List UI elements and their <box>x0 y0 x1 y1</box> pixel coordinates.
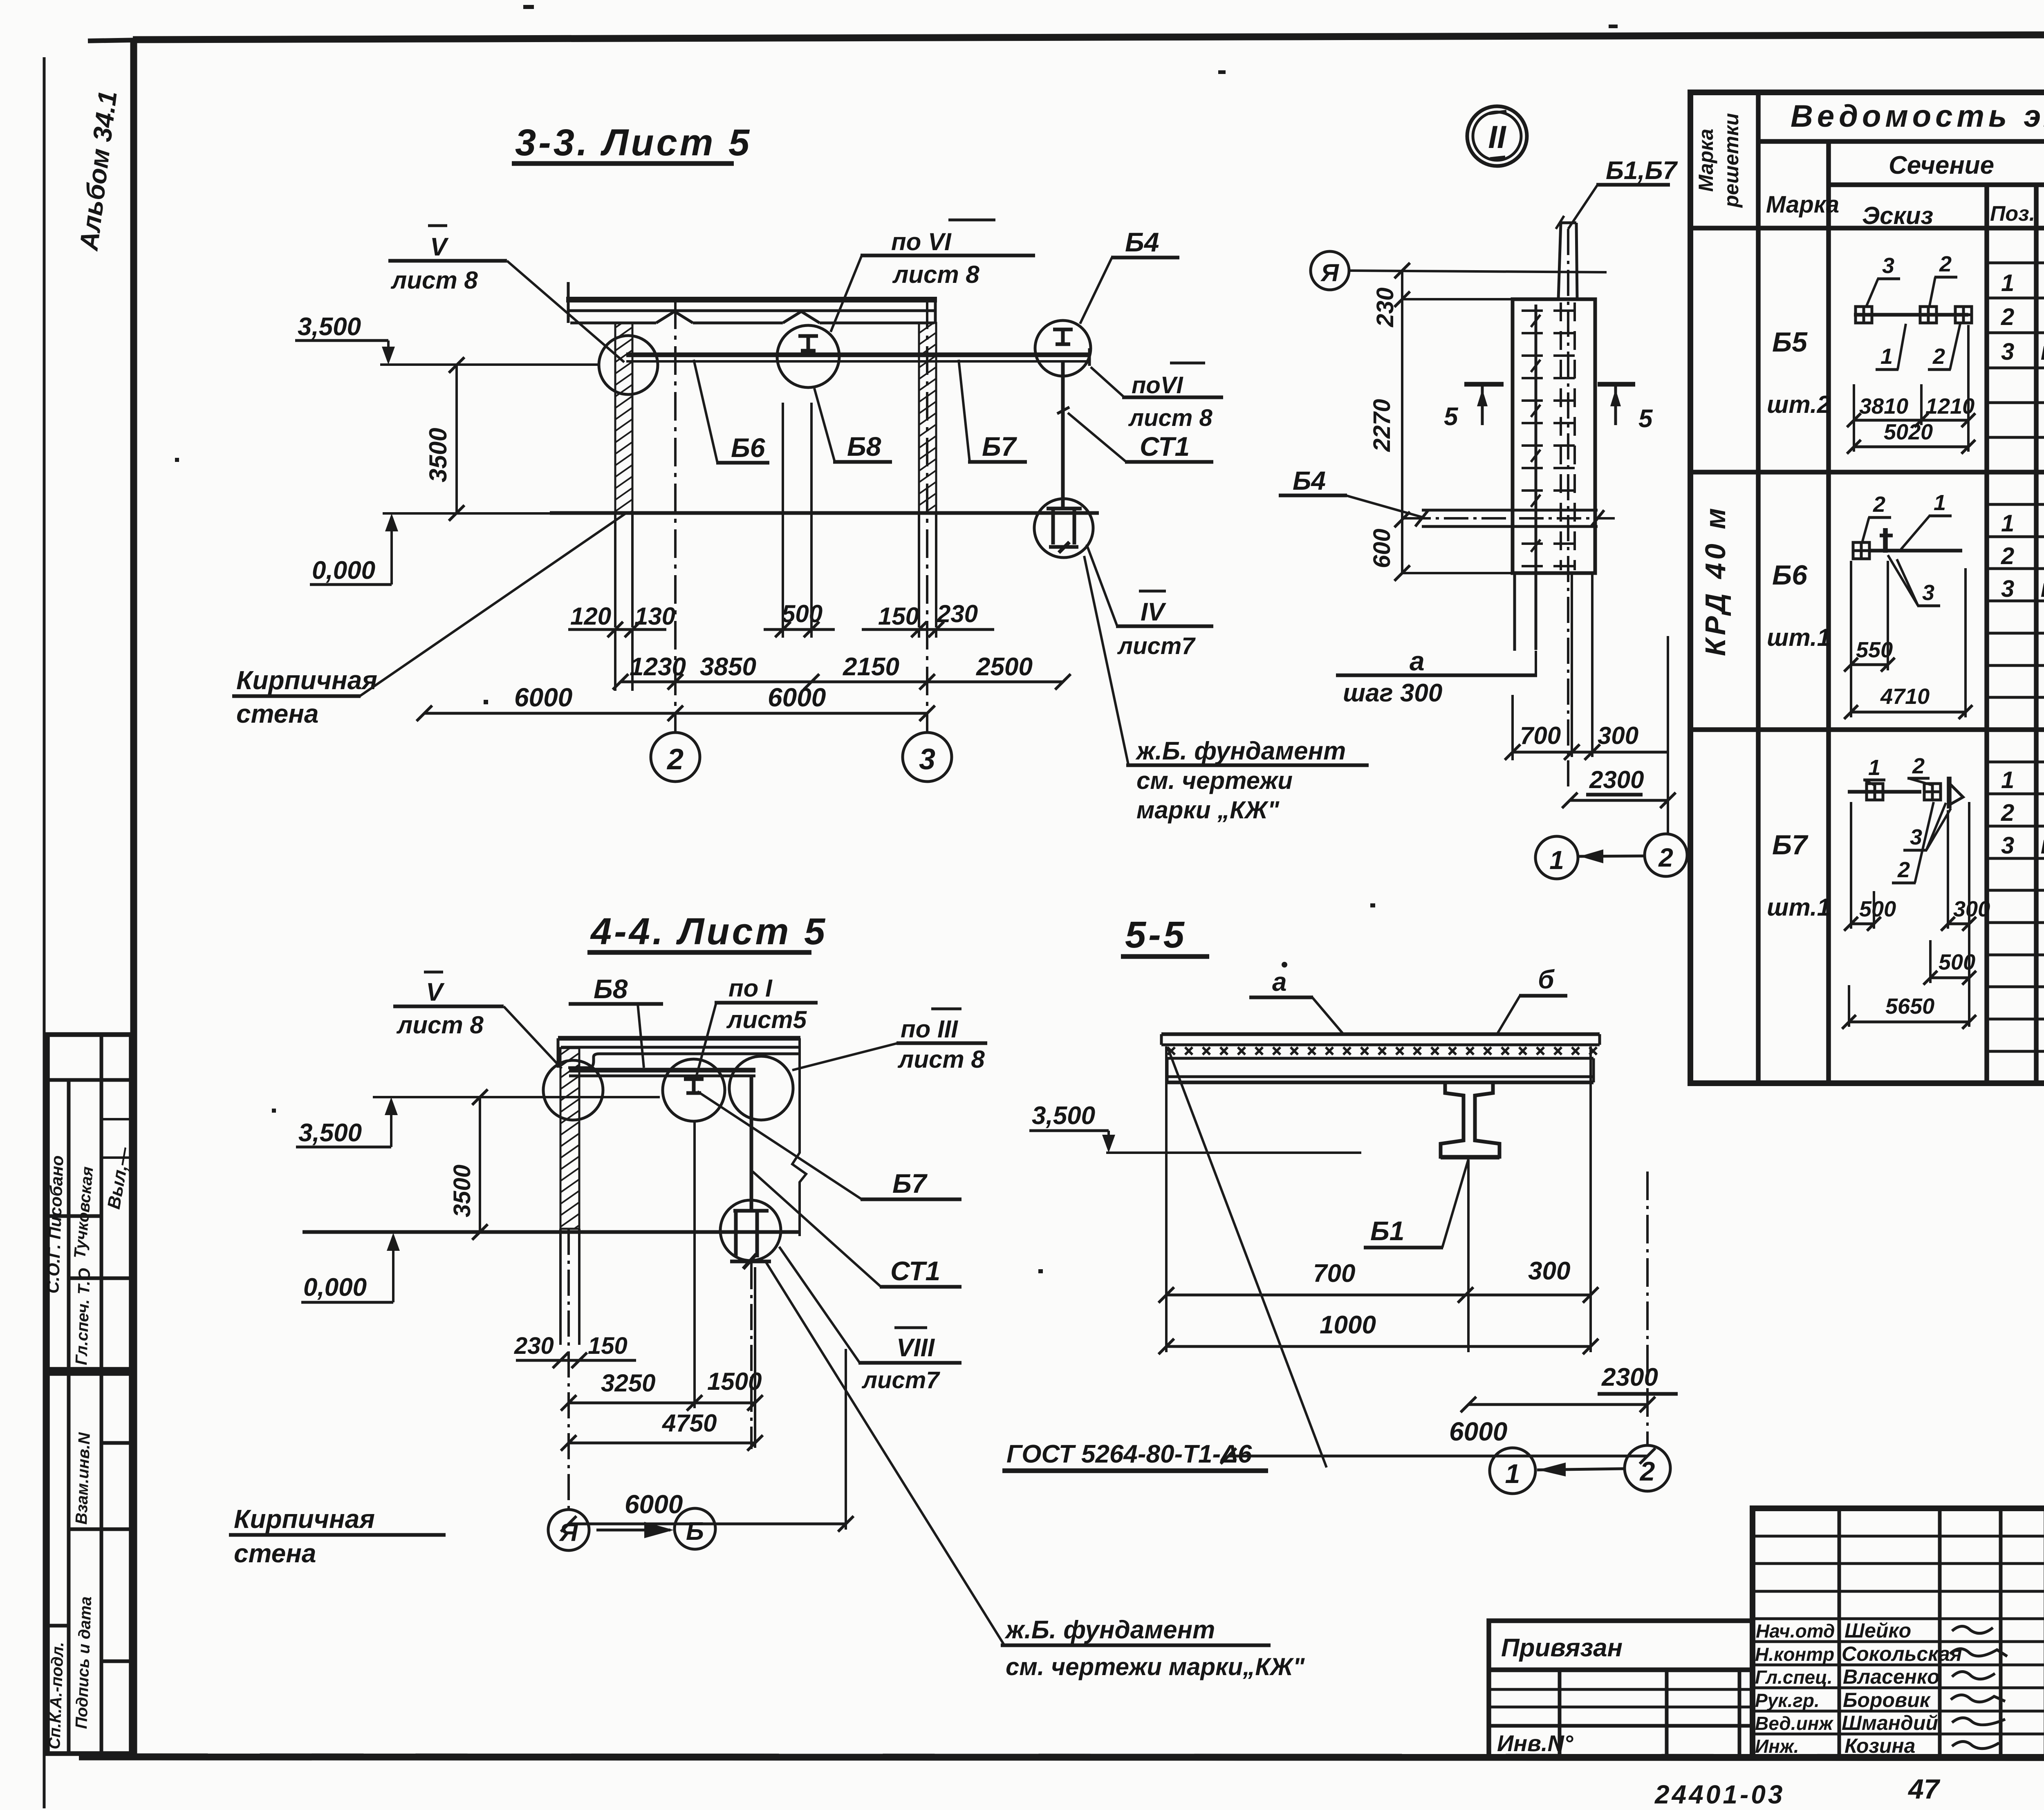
top-left border dashes <box>88 40 135 41</box>
svg-text:по III: по III <box>901 1015 958 1043</box>
svg-text:2150: 2150 <box>843 653 899 681</box>
svg-text:Привязан: Привязан <box>1501 1634 1623 1662</box>
svg-text:Б6: Б6 <box>731 432 766 463</box>
foundation circle <box>1034 499 1093 558</box>
right title block outline <box>1753 1508 2044 1757</box>
svg-text:1000: 1000 <box>1320 1311 1376 1339</box>
I-beam symbol middle <box>798 336 818 351</box>
svg-text:3: 3 <box>1910 825 1922 849</box>
svg-text:Кирпичная: Кирпичная <box>234 1504 375 1534</box>
TABLE <box>1690 92 2044 1083</box>
leader V <box>507 261 624 362</box>
svg-text:IV: IV <box>1141 598 1166 626</box>
svg-text:СТ1: СТ1 <box>1140 431 1190 461</box>
svg-text:Б8: Б8 <box>594 974 628 1004</box>
stamp block A rows <box>47 1078 131 1082</box>
svg-text:лист7: лист7 <box>861 1367 940 1393</box>
wall axis dashdot <box>567 1229 570 1508</box>
svg-text:120: 120 <box>570 603 611 630</box>
anchor symbol <box>1047 509 1082 553</box>
svg-text:1: 1 <box>1868 755 1880 780</box>
svg-text:Я: Я <box>558 1519 578 1547</box>
svg-text:лист 8: лист 8 <box>390 267 478 294</box>
axis circle 2 <box>651 733 700 782</box>
outer thin left line <box>43 57 46 1808</box>
svg-text:3: 3 <box>2001 576 2014 602</box>
svg-text:300: 300 <box>1953 897 1990 921</box>
stamp block B columns <box>67 1373 71 1754</box>
roof slab <box>566 297 937 302</box>
svg-text:150: 150 <box>878 603 919 630</box>
svg-text:2: 2 <box>2001 543 2014 569</box>
monorail strip above column <box>1558 223 1561 299</box>
grating bar line <box>1535 305 1537 650</box>
anchor symbol <box>730 1211 771 1269</box>
svg-text:Сечение: Сечение <box>1889 151 1994 179</box>
svg-text:по I: по I <box>728 974 773 1002</box>
svg-text:Вед.инж: Вед.инж <box>1755 1713 1833 1734</box>
speck marks <box>175 5 1618 1273</box>
svg-text:1: 1 <box>2001 767 2014 793</box>
SEC33 <box>232 122 1369 824</box>
svg-text:Сокольская: Сокольская <box>1842 1642 1962 1665</box>
svg-text:2300: 2300 <box>1589 766 1644 793</box>
svg-text:Марка: Марка <box>1766 191 1839 218</box>
svg-text:Гл.спеч. Т.О: Гл.спеч. Т.О <box>72 1268 94 1365</box>
svg-text:Инв.N°: Инв.N° <box>1497 1730 1573 1756</box>
axis line 2 <box>674 300 677 732</box>
svg-text:2500: 2500 <box>976 653 1033 681</box>
section marker 5 right <box>1598 382 1635 387</box>
hanger rod <box>750 1076 753 1210</box>
privyazan rows <box>1489 1667 1753 1672</box>
svg-text:V: V <box>430 233 449 261</box>
svg-text:см. чертежи: см. чертежи <box>1136 767 1293 794</box>
upper empty rows <box>1753 1536 2044 1591</box>
svg-text:Эскиз: Эскиз <box>1862 202 1933 229</box>
svg-text:L100х100х7: L100х100х7 <box>2041 580 2044 601</box>
svg-text:3: 3 <box>1882 253 1894 278</box>
svg-text:3810: 3810 <box>1859 394 1908 419</box>
brick wall hatched <box>560 1048 579 1229</box>
I-beam symbol right <box>1053 329 1073 344</box>
horizontal ext lines for vertical dims <box>1402 298 1513 300</box>
svg-text:6000: 6000 <box>768 683 826 712</box>
svg-text:Гл.спец.: Гл.спец. <box>1755 1667 1833 1688</box>
DETAIL2 <box>1279 106 1687 879</box>
detail circles <box>543 1060 603 1120</box>
svg-text:шт.1: шт.1 <box>1767 624 1831 651</box>
svg-text:5-5: 5-5 <box>1125 914 1187 956</box>
svg-text:Б8: Б8 <box>847 431 881 461</box>
svg-text:4-4. Лист 5: 4-4. Лист 5 <box>590 911 827 952</box>
svg-text:Б4: Б4 <box>1293 466 1326 495</box>
svg-text:3: 3 <box>919 743 935 776</box>
main border top <box>133 34 2044 40</box>
svg-text:Боровик: Боровик <box>1843 1689 1931 1711</box>
table outer border <box>1690 92 2044 1083</box>
svg-text:Кирпичная: Кирпичная <box>236 665 377 695</box>
anchor circle <box>720 1200 781 1261</box>
svg-text:4750: 4750 <box>662 1409 717 1437</box>
svg-text:150: 150 <box>588 1333 628 1359</box>
svg-text:2: 2 <box>2001 800 2014 826</box>
svg-text:Власенко: Власенко <box>1843 1665 1940 1688</box>
svg-text:Б7: Б7 <box>1772 829 1809 860</box>
right brick wall hatched <box>919 323 936 513</box>
svg-text:230: 230 <box>1372 287 1399 327</box>
svg-text:1: 1 <box>2001 510 2014 537</box>
axis to circle 2 <box>1646 1172 1649 1445</box>
svg-text:130: 130 <box>634 603 675 630</box>
svg-text:2270: 2270 <box>1369 399 1395 452</box>
svg-text:Б7: Б7 <box>892 1168 928 1198</box>
svg-text:стена: стена <box>234 1539 316 1568</box>
SEC44 <box>229 911 1305 1680</box>
right break line <box>792 1038 806 1236</box>
svg-text:2: 2 <box>1639 1456 1655 1486</box>
dim row1 ticks <box>607 622 944 637</box>
svg-text:Б5: Б5 <box>1772 327 1808 358</box>
svg-text:3: 3 <box>1922 580 1934 605</box>
left brick wall hatched <box>615 323 632 513</box>
vertical dim 3500 <box>479 1097 481 1232</box>
svg-text:стена: стена <box>236 699 319 728</box>
vertical dim 3500 <box>455 365 458 513</box>
wall below floor left <box>614 513 616 627</box>
svg-text:Б7: Б7 <box>982 431 1018 461</box>
hanger detail circle left <box>599 336 658 394</box>
svg-text:300: 300 <box>1528 1257 1570 1285</box>
TITLEBLOCK <box>1489 1508 2044 1809</box>
svg-text:2: 2 <box>1912 754 1925 778</box>
svg-text:Поз.: Поз. <box>1990 202 2035 226</box>
main border bottom <box>79 1757 2044 1758</box>
roof slab <box>558 1036 800 1041</box>
column inner dashed verticals <box>1560 302 1562 570</box>
stamp block B outline <box>47 1373 131 1754</box>
svg-text:3: 3 <box>2001 338 2014 365</box>
table column lines <box>1758 92 2044 1083</box>
svg-text:ж.Б. фундамент: ж.Б. фундамент <box>1135 737 1346 765</box>
svg-text:6000: 6000 <box>625 1490 683 1519</box>
svg-text:300: 300 <box>1598 722 1638 749</box>
axis line 3 <box>926 300 928 732</box>
extension lines <box>1166 1046 1591 1352</box>
dim row3 6000 6000 <box>424 712 927 715</box>
privyazan columns <box>1558 1670 1562 1758</box>
main border left <box>130 40 137 1758</box>
svg-text:3850: 3850 <box>700 653 756 681</box>
I-beam B1 <box>1441 1082 1499 1157</box>
svg-text:лист 8: лист 8 <box>396 1011 484 1039</box>
view direction A-B <box>548 1510 589 1550</box>
weld x marks <box>1168 1047 1597 1055</box>
signature squiggles <box>1950 1626 2007 1748</box>
svg-text:L100х100х7: L100х100х7 <box>2041 836 2044 858</box>
extension lines <box>615 403 936 691</box>
svg-text:Шмандий: Шмандий <box>1842 1711 1938 1734</box>
svg-text:поVI: поVI <box>1132 372 1184 399</box>
svg-text:5650: 5650 <box>1885 994 1934 1019</box>
svg-text:700: 700 <box>1313 1259 1355 1288</box>
svg-text:Б: Б <box>686 1517 704 1546</box>
svg-text:Марка: Марка <box>1694 129 1717 192</box>
svg-text:2300: 2300 <box>1601 1363 1658 1391</box>
svg-text:VIII: VIII <box>896 1334 935 1362</box>
svg-text:2: 2 <box>1658 843 1673 872</box>
column centerline dashdot <box>1567 229 1569 789</box>
svg-text:V: V <box>426 978 445 1006</box>
svg-text:Б6: Б6 <box>1772 560 1808 591</box>
view circles 1 2 <box>1490 1448 1535 1494</box>
floor line <box>303 1230 800 1234</box>
svg-text:2: 2 <box>1873 492 1885 517</box>
table body thin row lines <box>1987 263 2044 1051</box>
B5 sketch <box>1847 252 1975 454</box>
svg-text:а: а <box>1410 646 1425 676</box>
stamp block A columns <box>67 1080 71 1369</box>
vertical dim line 230 2270 600 <box>1401 271 1403 573</box>
svg-text:5020: 5020 <box>1884 420 1933 444</box>
svg-text:шаг 300: шаг 300 <box>1343 679 1442 707</box>
svg-text:24401-03: 24401-03 <box>1654 1780 1785 1809</box>
svg-text:5: 5 <box>1638 405 1653 433</box>
svg-text:лист 8: лист 8 <box>892 261 979 288</box>
svg-text:Б1: Б1 <box>1370 1216 1404 1246</box>
LEFTMARGIN <box>43 89 134 1754</box>
stamp block A outline <box>47 1035 131 1369</box>
svg-text:1230: 1230 <box>630 653 686 681</box>
svg-text:СТ1: СТ1 <box>890 1256 940 1286</box>
svg-text:Взам.инв.N: Взам.инв.N <box>72 1432 94 1525</box>
hanger detail circle middle <box>777 325 839 388</box>
left lines below column <box>1513 573 1516 651</box>
svg-text:б: б <box>1538 965 1555 994</box>
roman II marker <box>1467 106 1527 166</box>
svg-text:Шейко: Шейко <box>1845 1619 1911 1642</box>
svg-text:3,500: 3,500 <box>298 1119 362 1147</box>
svg-text:лист 8: лист 8 <box>1128 405 1213 431</box>
svg-text:500: 500 <box>1859 897 1896 921</box>
svg-text:лист7: лист7 <box>1117 633 1196 659</box>
svg-text:3500: 3500 <box>449 1165 475 1217</box>
hatch ticks on column <box>1531 315 1540 552</box>
svg-text:0,000: 0,000 <box>303 1273 367 1301</box>
hanger rod CT1 <box>1061 361 1065 509</box>
hanger detail circle right <box>1035 320 1091 376</box>
svg-text:230: 230 <box>514 1333 554 1359</box>
svg-text:лист5: лист5 <box>726 1006 807 1033</box>
axis A circle <box>1311 251 1349 290</box>
column outline <box>1513 299 1595 573</box>
svg-text:Б4: Б4 <box>1125 227 1159 257</box>
table header row lines <box>1690 141 2044 730</box>
svg-text:Нач.отд: Нач.отд <box>1756 1620 1835 1642</box>
monorail beam <box>626 352 1089 357</box>
svg-text:2: 2 <box>1932 344 1945 369</box>
svg-text:0,000: 0,000 <box>312 556 375 585</box>
svg-text:см. чертежи марки„КЖ": см. чертежи марки„КЖ" <box>1006 1653 1305 1680</box>
axis circles 1 2 <box>1535 836 1578 879</box>
svg-text:2: 2 <box>2001 304 2014 330</box>
svg-text:Козина: Козина <box>1845 1734 1915 1757</box>
beam B8 <box>569 1068 755 1073</box>
svg-text:II: II <box>1488 119 1506 155</box>
wall below floor <box>559 1229 562 1345</box>
svg-text:600: 600 <box>1369 529 1395 568</box>
SEC55 <box>1002 914 1678 1494</box>
B6 sketch <box>1844 491 1972 719</box>
svg-text:6000: 6000 <box>1449 1417 1507 1446</box>
svg-text:3,500: 3,500 <box>1032 1102 1095 1130</box>
privyazan block outline <box>1489 1621 1753 1758</box>
svg-text:47: 47 <box>1907 1774 1941 1805</box>
svg-text:4710: 4710 <box>1880 684 1930 709</box>
B4 beam through column <box>1422 509 1598 512</box>
svg-text:лист 8: лист 8 <box>897 1046 985 1073</box>
svg-text:Ведомость элементов (продолж: Ведомость элементов (продолжение) <box>1791 99 2044 134</box>
svg-text:ж.Б. фундамент: ж.Б. фундамент <box>1004 1616 1215 1644</box>
svg-text:Я: Я <box>1320 259 1339 287</box>
floor line 0.000 <box>550 511 1099 515</box>
svg-text:6000: 6000 <box>514 683 572 712</box>
svg-text:3250: 3250 <box>601 1369 655 1397</box>
svg-text:2: 2 <box>1939 252 1952 276</box>
svg-text:3500: 3500 <box>424 428 452 482</box>
leader po VI <box>831 255 862 332</box>
svg-text:2: 2 <box>1897 858 1910 882</box>
wall below floor right <box>918 513 920 627</box>
svg-text:марки „КЖ": марки „КЖ" <box>1136 796 1280 824</box>
column inner dashed ladder <box>1522 311 1585 566</box>
svg-text:шт.1: шт.1 <box>1767 894 1831 921</box>
svg-text:по VI: по VI <box>891 228 952 255</box>
svg-text:ГОСТ 5264-80-Т1-Δ6: ГОСТ 5264-80-Т1-Δ6 <box>1006 1440 1252 1468</box>
section marker 5 left <box>1464 382 1504 387</box>
svg-text:5: 5 <box>1444 403 1459 431</box>
stamp block B rows <box>69 1528 131 1531</box>
svg-text:1: 1 <box>2001 270 2014 296</box>
svg-text:Сп.К.А.-подл.: Сп.К.А.-подл. <box>45 1642 67 1750</box>
svg-text:Н.контр: Н.контр <box>1755 1644 1834 1665</box>
svg-text:2: 2 <box>666 743 684 776</box>
dim row2 1230 3850 2150 2500 <box>621 681 1063 683</box>
svg-text:1500: 1500 <box>707 1368 762 1395</box>
svg-text:3: 3 <box>2001 832 2014 859</box>
deck band <box>1167 1057 1594 1060</box>
signature columns <box>1838 1508 1841 1757</box>
svg-text:шт.2: шт.2 <box>1767 391 1831 418</box>
verticals below column right <box>1571 573 1573 757</box>
svg-text:1: 1 <box>1549 845 1564 875</box>
axis A line <box>1349 271 1607 272</box>
svg-text:Б1,Б7: Б1,Б7 <box>1606 157 1678 185</box>
svg-text:700: 700 <box>1520 722 1561 749</box>
svg-text:КРД 40 м: КРД 40 м <box>1699 505 1731 656</box>
top plate <box>1161 1033 1600 1036</box>
svg-text:а: а <box>1272 967 1287 997</box>
svg-text:3-3. Лист 5: 3-3. Лист 5 <box>515 122 752 164</box>
svg-text:1: 1 <box>1505 1458 1520 1489</box>
svg-text:Инж.: Инж. <box>1755 1736 1799 1757</box>
svg-text:1: 1 <box>1880 344 1893 369</box>
svg-text:1: 1 <box>1934 491 1946 515</box>
svg-text:L100х100х7: L100х100х7 <box>2041 343 2044 364</box>
svg-text:3,500: 3,500 <box>298 313 361 341</box>
signature rows <box>1753 1619 2044 1734</box>
svg-text:Рук.гр.: Рук.гр. <box>1755 1690 1820 1711</box>
svg-text:решетки: решетки <box>1720 113 1743 208</box>
axis circle 3 <box>903 733 952 782</box>
B7 sketch <box>1842 754 1990 1029</box>
